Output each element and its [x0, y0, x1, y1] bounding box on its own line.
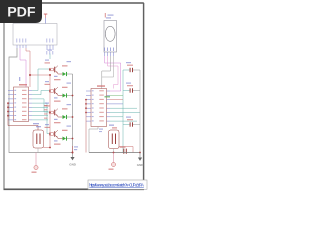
svg-text:GND: GND [69, 163, 77, 167]
svg-text:GND: GND [137, 163, 145, 167]
svg-text:PDF: PDF [7, 4, 36, 20]
svg-text:https://www.youtube.com/watch?: https://www.youtube.com/watch?v=CLlPu8dP… [89, 182, 144, 187]
